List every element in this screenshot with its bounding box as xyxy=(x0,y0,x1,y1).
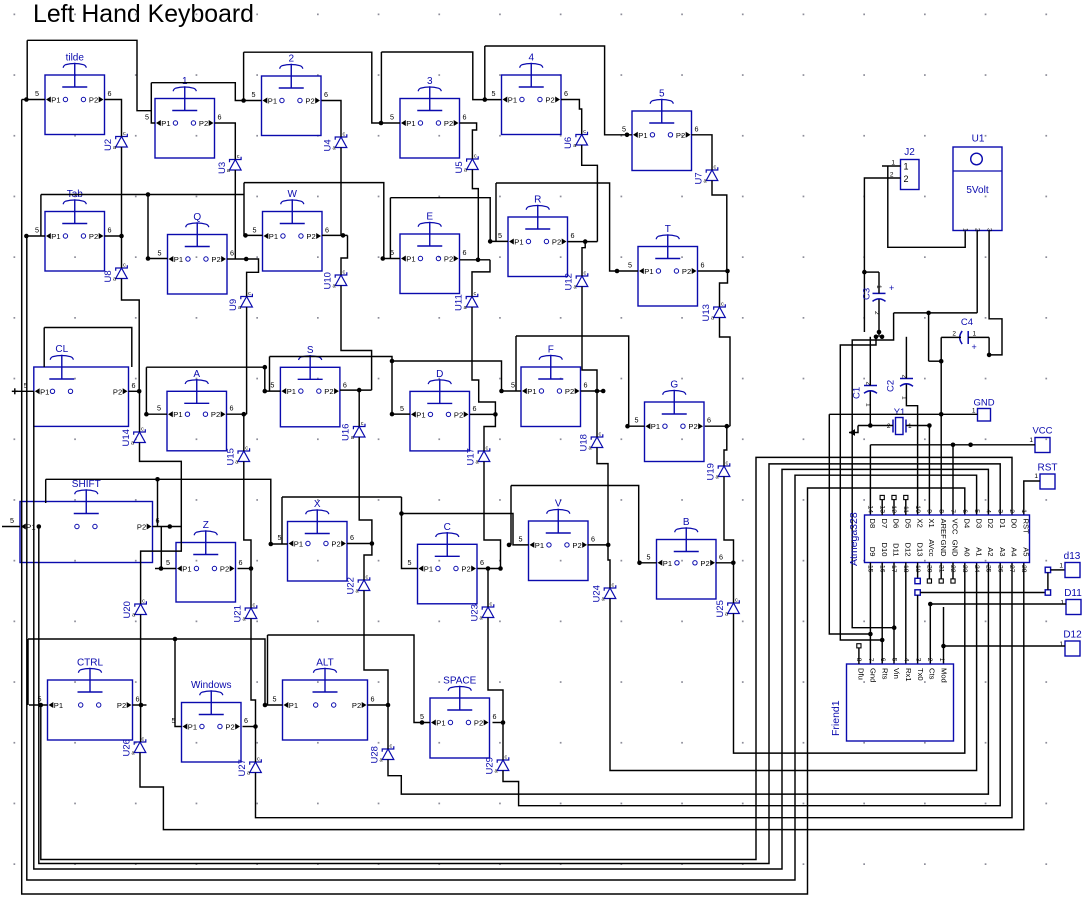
wire xyxy=(41,457,1012,859)
junction xyxy=(420,720,425,725)
junction xyxy=(379,121,384,126)
svg-text:U7: U7 xyxy=(694,172,705,184)
svg-text:D12: D12 xyxy=(904,543,913,557)
wire xyxy=(864,271,879,273)
svg-text:6: 6 xyxy=(324,90,328,99)
svg-text:P1: P1 xyxy=(40,387,49,396)
svg-text:5: 5 xyxy=(158,249,162,258)
junction xyxy=(269,542,274,547)
svg-text:5: 5 xyxy=(400,404,404,413)
wire xyxy=(227,258,246,260)
wire xyxy=(1024,481,1040,515)
svg-text:S: S xyxy=(307,345,314,356)
svg-text:5: 5 xyxy=(635,416,639,425)
svg-text:P1: P1 xyxy=(406,119,415,128)
wire xyxy=(712,181,727,272)
wire xyxy=(588,544,609,546)
svg-text:6: 6 xyxy=(719,552,723,561)
svg-text:A0: A0 xyxy=(963,547,972,556)
no-connect Dfu xyxy=(858,648,860,664)
svg-text:5: 5 xyxy=(659,89,665,100)
junction xyxy=(137,389,142,394)
svg-text:6: 6 xyxy=(230,249,234,258)
wire xyxy=(852,313,894,628)
svg-text:P2: P2 xyxy=(461,565,470,574)
no-connect stub xyxy=(952,563,954,580)
svg-text:Left Hand Keyboard: Left Hand Keyboard xyxy=(33,0,254,28)
wire xyxy=(29,704,48,706)
svg-text:5: 5 xyxy=(408,558,412,567)
junction xyxy=(877,330,882,335)
wire xyxy=(41,194,244,196)
diode U20 xyxy=(122,599,146,619)
wire xyxy=(234,170,236,259)
switch Q xyxy=(158,212,235,294)
diode U25 xyxy=(715,598,739,618)
wire xyxy=(488,618,503,723)
svg-text:P2: P2 xyxy=(305,97,314,106)
svg-text:c: c xyxy=(361,421,364,427)
svg-text:T: T xyxy=(665,224,671,235)
svg-text:SPACE: SPACE xyxy=(443,676,476,687)
svg-text:c: c xyxy=(142,599,145,605)
svg-text:P2: P2 xyxy=(545,96,554,105)
svg-text:c: c xyxy=(474,291,477,297)
svg-text:5: 5 xyxy=(270,381,274,390)
junction xyxy=(868,423,873,428)
svg-text:14: 14 xyxy=(867,505,874,513)
junction xyxy=(486,566,491,571)
junction xyxy=(615,269,620,274)
wire xyxy=(858,425,893,427)
switch CL xyxy=(24,344,136,426)
svg-text:+: + xyxy=(972,342,977,352)
junction xyxy=(253,724,258,729)
svg-text:P1: P1 xyxy=(287,387,296,396)
no-connect stub xyxy=(928,563,930,580)
switch D xyxy=(400,369,477,451)
switch E xyxy=(390,212,467,294)
svg-text:P1: P1 xyxy=(514,238,523,247)
wire xyxy=(34,391,989,869)
pin D11 xyxy=(1060,588,1082,615)
svg-text:U22: U22 xyxy=(346,577,357,594)
wire xyxy=(402,514,529,545)
svg-text:Tx0: Tx0 xyxy=(916,668,925,681)
wire xyxy=(25,235,27,237)
switch tilde xyxy=(35,53,112,135)
IC Friend1 xyxy=(830,658,954,741)
wire xyxy=(364,544,372,581)
wire xyxy=(733,563,735,603)
svg-text:D4: D4 xyxy=(963,519,972,529)
wire xyxy=(269,357,271,392)
svg-text:3: 3 xyxy=(996,509,1003,513)
diode U16 xyxy=(341,421,365,441)
wire xyxy=(268,635,431,723)
svg-text:P2: P2 xyxy=(324,387,333,396)
junction xyxy=(483,97,488,102)
svg-text:2: 2 xyxy=(288,54,294,65)
switch SPACE xyxy=(420,676,497,759)
svg-text:5: 5 xyxy=(498,231,502,240)
diode U12 xyxy=(564,271,588,291)
wire xyxy=(928,313,930,361)
svg-text:VCC: VCC xyxy=(951,519,960,536)
wire xyxy=(151,83,261,101)
wire xyxy=(364,591,388,706)
wire xyxy=(22,99,27,101)
wire xyxy=(244,462,251,569)
wire xyxy=(282,496,402,498)
junction xyxy=(880,638,885,643)
switch Windows xyxy=(172,680,249,762)
svg-text:25: 25 xyxy=(985,565,992,573)
svg-text:P1: P1 xyxy=(174,255,183,264)
svg-text:RST: RST xyxy=(1022,519,1031,535)
svg-text:D10: D10 xyxy=(880,543,889,557)
svg-text:A1: A1 xyxy=(974,547,983,556)
junction xyxy=(476,258,481,263)
svg-text:U17: U17 xyxy=(466,448,477,465)
svg-text:ALT: ALT xyxy=(316,658,334,669)
svg-text:D9: D9 xyxy=(868,547,877,557)
wire xyxy=(472,170,478,260)
wire xyxy=(27,40,155,123)
svg-text:c: c xyxy=(474,154,477,160)
svg-text:U4: U4 xyxy=(323,139,334,151)
diode U15 xyxy=(225,446,249,466)
diode U4 xyxy=(323,132,347,152)
svg-text:U9: U9 xyxy=(228,299,239,311)
no-connect stub xyxy=(881,500,883,516)
capacitor C1 xyxy=(852,382,878,408)
wire xyxy=(692,135,713,170)
svg-text:P1: P1 xyxy=(161,119,170,128)
switch X xyxy=(278,499,355,581)
svg-text:c: c xyxy=(123,263,126,269)
svg-text:P2: P2 xyxy=(474,719,483,728)
svg-text:Atmega328: Atmega328 xyxy=(848,512,860,566)
svg-text:5: 5 xyxy=(145,113,149,122)
junction xyxy=(501,720,506,725)
svg-text:6: 6 xyxy=(244,716,248,725)
junction xyxy=(926,311,931,316)
wire xyxy=(917,563,919,579)
svg-text:c: c xyxy=(612,583,615,589)
switch 4 xyxy=(492,53,569,135)
svg-text:1: 1 xyxy=(973,331,977,338)
wire xyxy=(27,639,29,705)
svg-text:5: 5 xyxy=(511,381,515,390)
wire xyxy=(943,607,945,664)
svg-text:Gnd: Gnd xyxy=(868,668,877,682)
svg-text:1: 1 xyxy=(972,408,976,415)
junction xyxy=(357,388,362,393)
svg-text:c: c xyxy=(714,165,717,171)
wire xyxy=(27,236,977,880)
wire xyxy=(340,148,342,236)
svg-text:5: 5 xyxy=(35,226,39,235)
wire xyxy=(840,337,882,640)
svg-text:P1: P1 xyxy=(436,719,445,728)
svg-text:5: 5 xyxy=(253,226,257,235)
wire xyxy=(140,615,142,743)
wire xyxy=(870,444,1035,446)
wire xyxy=(888,166,965,247)
svg-text:U1: U1 xyxy=(972,134,985,145)
svg-text:D3: D3 xyxy=(974,519,983,529)
no-connect stub xyxy=(940,563,942,580)
wire xyxy=(267,635,269,705)
svg-text:c: c xyxy=(486,446,489,452)
svg-text:8: 8 xyxy=(937,509,944,513)
svg-text:P1: P1 xyxy=(527,387,536,396)
svg-text:P2: P2 xyxy=(454,410,463,419)
svg-text:U15: U15 xyxy=(225,448,236,465)
svg-text:U2: U2 xyxy=(103,139,114,151)
wire xyxy=(347,543,372,545)
wire xyxy=(944,645,1066,647)
junction xyxy=(625,133,630,138)
wire xyxy=(882,165,901,167)
svg-text:U10: U10 xyxy=(323,272,334,289)
svg-text:P2: P2 xyxy=(89,96,98,105)
svg-text:P2: P2 xyxy=(331,540,340,549)
svg-text:AVcc: AVcc xyxy=(927,539,936,556)
svg-text:27: 27 xyxy=(1008,565,1015,573)
wire xyxy=(869,337,871,386)
wire xyxy=(929,360,942,362)
svg-text:P2: P2 xyxy=(211,410,220,419)
junction xyxy=(146,192,151,197)
svg-text:1: 1 xyxy=(938,658,945,662)
svg-text:A3: A3 xyxy=(998,547,1007,556)
wire xyxy=(487,569,489,608)
junction xyxy=(242,412,247,417)
wire xyxy=(133,704,147,706)
wire xyxy=(250,569,252,609)
svg-text:C1: C1 xyxy=(852,387,863,399)
junction xyxy=(862,270,867,275)
wire xyxy=(227,413,247,415)
wire xyxy=(251,619,256,727)
svg-text:5: 5 xyxy=(519,534,523,543)
svg-text:1: 1 xyxy=(1060,600,1064,607)
junction xyxy=(493,412,498,417)
wire xyxy=(388,563,988,795)
wire xyxy=(105,100,122,137)
svg-text:B: B xyxy=(683,517,690,528)
svg-text:A4: A4 xyxy=(1010,547,1019,556)
svg-text:D7: D7 xyxy=(880,519,889,529)
wire xyxy=(720,318,731,427)
svg-text:5: 5 xyxy=(973,509,980,513)
svg-text:X1: X1 xyxy=(927,519,936,528)
svg-text:1: 1 xyxy=(1059,563,1063,570)
junction xyxy=(24,234,29,239)
junction xyxy=(119,234,124,239)
svg-text:5: 5 xyxy=(35,89,39,98)
diode U13 xyxy=(701,302,725,322)
svg-text:6: 6 xyxy=(695,124,699,133)
svg-text:6: 6 xyxy=(350,533,354,542)
IC Atmega328 xyxy=(848,505,1031,572)
junction xyxy=(941,644,946,649)
diode U29 xyxy=(485,755,509,775)
wire xyxy=(724,426,727,466)
wire xyxy=(878,300,880,337)
svg-text:6: 6 xyxy=(879,658,886,662)
svg-text:6: 6 xyxy=(371,695,375,704)
svg-text:6: 6 xyxy=(230,404,234,413)
wire xyxy=(917,595,919,664)
wire xyxy=(246,307,248,414)
wire xyxy=(281,497,283,544)
junction xyxy=(139,703,144,708)
junction xyxy=(155,477,160,482)
wire xyxy=(392,361,521,391)
diode U7 xyxy=(694,165,718,185)
wire xyxy=(146,367,167,414)
junction xyxy=(939,412,944,417)
junction xyxy=(625,424,630,429)
svg-text:GND: GND xyxy=(939,540,948,557)
wire xyxy=(256,563,1013,818)
wire xyxy=(146,366,264,368)
junction xyxy=(606,543,611,548)
diode U24 xyxy=(592,583,616,603)
wire xyxy=(26,235,45,237)
wire xyxy=(906,426,929,516)
svg-text:5: 5 xyxy=(157,404,161,413)
wire xyxy=(720,271,728,307)
wire xyxy=(893,563,895,665)
svg-text:P2: P2 xyxy=(444,255,453,264)
svg-text:Q: Q xyxy=(193,212,201,223)
junction xyxy=(386,703,391,708)
svg-text:P1: P1 xyxy=(173,410,182,419)
junction xyxy=(39,703,44,708)
svg-text:tilde: tilde xyxy=(66,53,85,64)
svg-text:5: 5 xyxy=(390,113,394,122)
switch SHIFT xyxy=(10,479,160,563)
junction xyxy=(927,423,932,428)
svg-text:D13: D13 xyxy=(915,543,924,557)
svg-text:C2: C2 xyxy=(886,380,897,392)
svg-text:P1: P1 xyxy=(51,232,60,241)
svg-text:U16: U16 xyxy=(341,424,352,441)
svg-text:9: 9 xyxy=(926,509,933,513)
wire xyxy=(22,100,965,895)
svg-text:6: 6 xyxy=(584,381,588,390)
junction xyxy=(263,389,268,394)
svg-text:c: c xyxy=(142,737,145,743)
svg-text:c: c xyxy=(726,461,729,467)
svg-text:P2: P2 xyxy=(572,541,581,550)
svg-text:c: c xyxy=(583,129,586,135)
svg-text:2: 2 xyxy=(887,423,891,430)
diode U11 xyxy=(454,291,478,311)
svg-text:c: c xyxy=(390,744,393,750)
wire xyxy=(122,279,140,392)
svg-text:U8: U8 xyxy=(103,270,114,282)
wire xyxy=(829,413,977,415)
svg-text:U25: U25 xyxy=(715,600,726,617)
junction xyxy=(583,239,588,244)
wire xyxy=(138,391,140,432)
svg-text:Z: Z xyxy=(203,520,209,531)
svg-text:C3: C3 xyxy=(862,288,873,300)
diode U27 xyxy=(237,757,261,777)
svg-text:1: 1 xyxy=(962,228,969,232)
svg-text:c: c xyxy=(257,757,260,763)
svg-text:5: 5 xyxy=(420,712,424,721)
svg-text:U13: U13 xyxy=(701,304,712,321)
svg-text:P1: P1 xyxy=(51,96,60,105)
svg-text:P2: P2 xyxy=(565,387,574,396)
no-connect stub xyxy=(893,500,895,516)
svg-text:VCC: VCC xyxy=(1032,426,1052,437)
svg-text:AREF: AREF xyxy=(939,519,948,540)
diode U6 xyxy=(563,129,587,149)
svg-text:c: c xyxy=(584,271,587,277)
svg-text:2: 2 xyxy=(904,174,909,184)
diode U2 xyxy=(103,131,127,151)
wire xyxy=(341,286,372,391)
diode U26 xyxy=(122,737,146,757)
svg-text:RST: RST xyxy=(1038,463,1058,474)
switch 5 xyxy=(622,89,699,171)
junction xyxy=(168,524,173,529)
svg-text:23: 23 xyxy=(961,565,968,573)
wire xyxy=(472,260,490,297)
wire xyxy=(243,414,245,451)
svg-text:P2: P2 xyxy=(199,119,208,128)
svg-text:C4: C4 xyxy=(961,317,973,328)
junction xyxy=(951,443,956,448)
wire xyxy=(511,486,657,563)
svg-text:c: c xyxy=(366,575,369,581)
switch F xyxy=(511,345,588,427)
junction xyxy=(144,412,149,417)
wire xyxy=(906,385,917,516)
svg-text:Windows: Windows xyxy=(191,680,232,691)
svg-text:10: 10 xyxy=(914,505,921,513)
wire xyxy=(596,391,598,437)
svg-text:6: 6 xyxy=(325,226,329,235)
junction xyxy=(507,543,512,548)
svg-text:P1: P1 xyxy=(663,559,672,568)
power RST xyxy=(1034,463,1057,490)
junction xyxy=(725,269,730,274)
svg-text:D1: D1 xyxy=(998,519,1007,529)
wire xyxy=(359,437,372,544)
switch W xyxy=(253,189,330,271)
wire xyxy=(582,242,585,276)
switch T xyxy=(628,224,705,306)
junction xyxy=(499,389,504,394)
svg-text:D: D xyxy=(436,369,443,380)
svg-text:5: 5 xyxy=(252,90,256,99)
svg-text:D11: D11 xyxy=(1064,588,1082,599)
wire xyxy=(244,52,400,123)
wire xyxy=(878,272,880,293)
svg-text:P1: P1 xyxy=(535,541,544,550)
junction xyxy=(725,424,730,429)
svg-text:Y1: Y1 xyxy=(894,407,906,418)
svg-text:U21: U21 xyxy=(233,605,244,622)
